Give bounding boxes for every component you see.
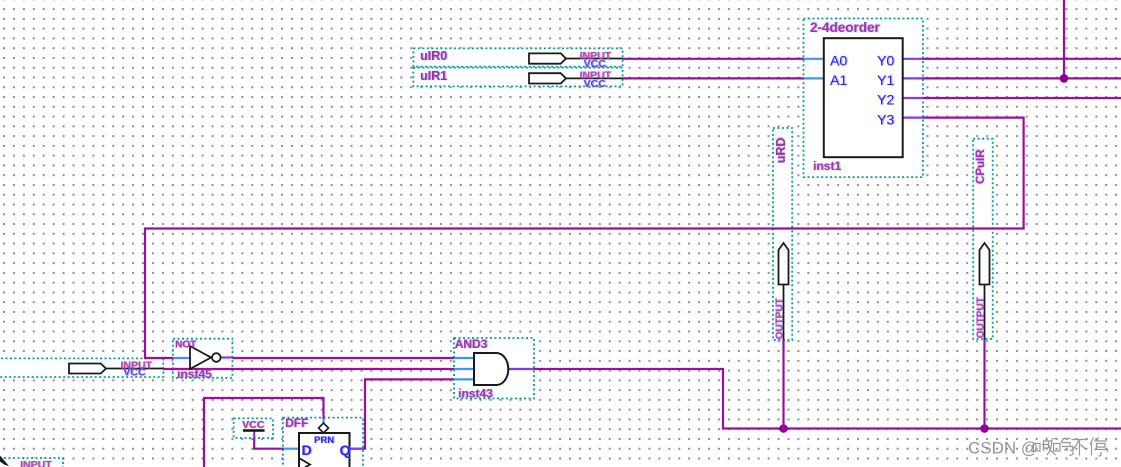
dff symbol <box>285 416 364 467</box>
input pin (left) selection box <box>0 358 163 377</box>
svg-text:Q: Q <box>340 442 351 458</box>
wire NOT output to AND3 input 1 <box>221 356 474 359</box>
and gate inst43 selection box <box>454 338 534 399</box>
svg-text:uRD: uRD <box>774 138 788 164</box>
wire Y3 net to NOT input <box>145 118 1024 358</box>
wire vertical to Y1 junction <box>1063 0 1065 78</box>
output connector CPuIR symbol <box>975 149 990 339</box>
wire DFF Q to AND3 input 3 <box>350 379 475 448</box>
svg-text:CSDN @: CSDN @ <box>968 439 1038 458</box>
output connector uRD selection box <box>773 128 792 340</box>
wire VCC to DFF D <box>254 432 299 449</box>
wire uIR0 to A0 <box>623 58 824 60</box>
svg-text:D: D <box>302 442 312 458</box>
and gate inst43 symbol <box>455 337 509 401</box>
junction dot on Y1 <box>1060 74 1069 83</box>
output connector uRD symbol <box>774 138 789 340</box>
svg-text:CPuIR: CPuIR <box>975 149 987 184</box>
decoder 2-4deorder inst1 symbol <box>810 20 903 173</box>
svg-text:inst1: inst1 <box>813 159 841 173</box>
not gate inst45 symbol <box>175 340 221 382</box>
wire uIR1 to A1 <box>623 77 824 79</box>
停 <box>1090 438 1108 457</box>
svg-text:Y3: Y3 <box>877 111 894 127</box>
svg-text:VCC: VCC <box>584 58 607 70</box>
svg-text:OUTPUT: OUTPUT <box>775 298 786 339</box>
junction dot uRD on bus <box>779 424 788 433</box>
wire uRD pin to bus <box>782 340 784 429</box>
input pin uIR1 selection box <box>413 68 622 87</box>
呜 <box>1054 439 1074 456</box>
watermark CJK glyphs (approximated) <box>1034 438 1108 457</box>
svg-text:INPUT: INPUT <box>20 459 52 467</box>
svg-text:Y1: Y1 <box>877 72 894 88</box>
vcc symbol selection box <box>234 418 273 438</box>
svg-text:Y0: Y0 <box>877 53 894 69</box>
svg-text:inst43: inst43 <box>458 387 493 401</box>
svg-text:A0: A0 <box>830 53 847 69</box>
vcc symbol <box>242 419 265 432</box>
input pin (bottom, clipped) selection box <box>0 458 63 467</box>
svg-text:DFF: DFF <box>285 416 308 430</box>
watermark CSDN <box>968 439 1038 458</box>
not gate inst45 selection box <box>173 339 232 378</box>
svg-text:VCC: VCC <box>123 367 146 379</box>
wire Y1 <box>903 77 1121 79</box>
svg-text:2-4deorder: 2-4deorder <box>810 20 881 35</box>
svg-text:NOT: NOT <box>175 340 196 351</box>
wire PRN net <box>204 398 324 467</box>
svg-text:AND3: AND3 <box>455 337 488 351</box>
wire Y2 <box>903 97 1121 99</box>
input pin (bottom, clipped) label <box>20 459 52 467</box>
嗷 <box>1034 438 1057 456</box>
input pin uIR0 selection box <box>413 48 622 66</box>
svg-text:VCC: VCC <box>584 78 607 90</box>
不 <box>1070 440 1088 456</box>
wire AND3 output to bottom bus <box>508 369 1121 429</box>
svg-text:A1: A1 <box>830 72 847 88</box>
decoder U inst1 selection box <box>804 19 924 178</box>
wire Y0 <box>903 58 1121 60</box>
svg-text:uIR1: uIR1 <box>420 69 447 83</box>
svg-text:OUTPUT: OUTPUT <box>976 297 987 338</box>
output connector CPuIR selection box <box>973 139 993 339</box>
input pin (left) symbol <box>69 359 164 378</box>
input pin uIR0 symbol <box>420 49 623 70</box>
junction dot CPuIR on bus <box>980 424 989 433</box>
input pin uIR1 symbol <box>420 69 623 90</box>
wire INPUT to AND3 input 2 <box>164 368 475 370</box>
svg-text:uIR0: uIR0 <box>420 49 447 63</box>
svg-text:PRN: PRN <box>314 435 334 446</box>
mouse cursor <box>0 456 9 467</box>
dff inst selection box <box>283 418 363 467</box>
svg-text:Y2: Y2 <box>877 92 894 108</box>
wire CPuIR pin to bus <box>983 339 985 429</box>
svg-text:inst45: inst45 <box>177 367 212 381</box>
